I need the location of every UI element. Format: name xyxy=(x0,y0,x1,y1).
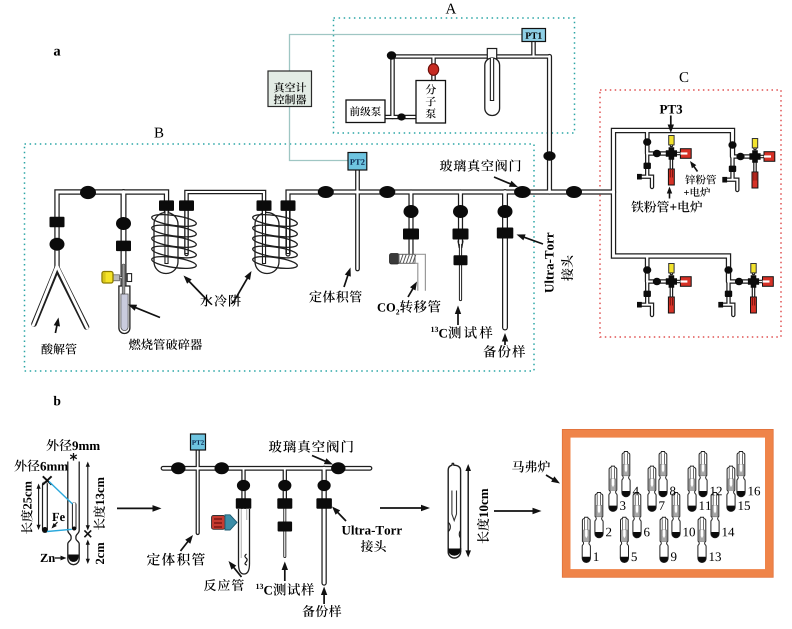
panel label a xyxy=(54,49,61,56)
13C sample branch tube upper xyxy=(458,192,463,243)
fore pump box xyxy=(346,100,385,123)
panel b 13C thin tube xyxy=(283,500,286,557)
cold trap A inner tube xyxy=(490,58,494,101)
A horizontal tube xyxy=(391,54,550,59)
C unit tube to zinc tube xyxy=(675,280,681,284)
label Ultra-Torr connector (rotated) xyxy=(544,233,553,293)
manifold valve dot 4 xyxy=(566,186,582,198)
section label C xyxy=(680,72,689,82)
13C branch lower stopcock xyxy=(454,255,468,265)
glass vacuum valve dot xyxy=(514,186,531,198)
A line valve dot xyxy=(543,151,555,161)
label 13C test sample xyxy=(431,327,434,332)
fore pump line dot xyxy=(397,113,405,120)
ampoule 4 xyxy=(622,452,630,497)
inner tube inside big tube xyxy=(72,504,77,528)
C unit stem stopcock xyxy=(644,163,651,169)
C unit stem valve dot xyxy=(724,266,732,273)
glass tubing black outline pass xyxy=(57,42,765,584)
C unit horizontal tube xyxy=(647,279,671,283)
ampoule 12 xyxy=(699,452,707,497)
crusher side arm xyxy=(112,276,122,279)
trap2 right stopcock xyxy=(281,200,296,211)
b 13C branch dot xyxy=(278,480,291,491)
panel b backup tube xyxy=(321,468,326,583)
ampoule 1 xyxy=(582,517,590,562)
C unit line valve dot xyxy=(736,153,744,160)
trap inner tube xyxy=(164,211,168,264)
length 25cm arrow + label xyxy=(38,487,40,526)
ampoule 13 xyxy=(698,517,706,562)
b reaction branch dot xyxy=(237,480,250,491)
crusher plunger rod xyxy=(122,264,125,294)
water cold trap vessel xyxy=(255,213,279,274)
acid branch valve dot xyxy=(50,238,65,251)
section label A xyxy=(446,4,457,14)
molecular pump box xyxy=(416,81,446,124)
label combustion tube crusher xyxy=(129,339,141,350)
trap2 left stopcock xyxy=(257,200,272,211)
trap right tube xyxy=(286,211,290,254)
combustion tube crusher body xyxy=(119,286,130,333)
tube inner white pass xyxy=(57,42,765,584)
ampoule 5 xyxy=(620,517,628,562)
length 13cm arrow + label xyxy=(87,465,89,527)
C unit J-tube cap xyxy=(722,177,727,183)
b glass vacuum valve dot xyxy=(331,462,345,474)
C unit stem valve dot xyxy=(643,266,651,273)
C unit horizontal tube xyxy=(647,151,671,155)
arrow stage 2 xyxy=(380,507,423,509)
CO2 branch valve dot xyxy=(404,205,419,218)
b 13C lower stopcock xyxy=(278,522,293,532)
C unit horizontal tube xyxy=(733,154,756,158)
Fe label xyxy=(52,513,59,521)
PT1 gauge box xyxy=(522,29,546,42)
C unit tube to sensor xyxy=(752,266,756,274)
ampoule 11 xyxy=(688,466,696,511)
C unit PT3 sensor (yellow) xyxy=(669,136,674,145)
vacuum gauge controller box xyxy=(268,71,312,107)
b backup stopcock (Ultra-Torr) xyxy=(316,498,332,509)
control line PT1 to controller xyxy=(290,35,523,72)
trap coil xyxy=(151,212,197,228)
yellow valve knob xyxy=(102,272,113,284)
C unit zinc powder tube (red) xyxy=(680,277,691,287)
C trunk lower + bottom feed line xyxy=(614,192,729,282)
trap inner tube xyxy=(262,211,266,264)
crusher branch valve dot xyxy=(116,217,131,230)
manifold segment 1 + acid branch + trap1 left tube xyxy=(57,192,167,270)
label CO2 transfer tube xyxy=(378,303,385,311)
combustion crusher branch tube xyxy=(121,192,127,286)
C unit 4-way cross valve xyxy=(749,150,760,163)
sealed tube 10cm xyxy=(448,464,460,553)
b manifold dot 1 xyxy=(171,462,185,474)
A left vertical tube xyxy=(390,57,395,118)
C unit tube to sensor xyxy=(670,138,674,146)
ampoule 7 xyxy=(648,466,656,511)
trap1 right stopcock xyxy=(179,200,194,211)
panel b PT2 gauge box xyxy=(191,434,206,450)
label outer diameter 9mm xyxy=(46,439,58,451)
C unit tube to zinc tube xyxy=(759,155,765,159)
crusher side tab xyxy=(127,274,131,282)
CO2 transfer tube assembly xyxy=(390,254,400,265)
ampoule 15 xyxy=(727,466,735,511)
C unit PT3 sensor (yellow) xyxy=(752,139,757,148)
section box C (red dotted) xyxy=(600,90,781,337)
acid digestion Y-tube xyxy=(34,268,87,327)
C unit lower stem + J sample tube xyxy=(640,282,652,316)
C unit iron powder tube (red) xyxy=(668,297,674,313)
13C branch stopcock xyxy=(453,229,469,240)
trap right tube xyxy=(184,211,188,254)
C unit stem valve dot xyxy=(728,141,736,148)
C unit iron powder tube (red) xyxy=(751,297,757,313)
label muffle furnace xyxy=(512,461,524,473)
b 13C stopcock xyxy=(277,498,292,509)
ampoule 2 xyxy=(595,493,603,538)
molecular pump top tube xyxy=(431,57,436,81)
C unit horizontal tube xyxy=(729,279,754,283)
control line controller to PT2 xyxy=(290,107,349,161)
section box B (teal dotted) xyxy=(25,144,535,371)
label water cold trap xyxy=(200,295,212,307)
label b glass vacuum valve xyxy=(269,440,282,452)
PT1 stem xyxy=(531,42,536,57)
C unit tube to iron tube xyxy=(753,161,757,174)
combustion tube (inner, lavender) xyxy=(121,294,128,331)
seal X mark on small tube xyxy=(43,476,52,484)
ampoule 10 xyxy=(672,493,680,538)
insertion lines (cyan) xyxy=(49,482,73,505)
acid branch stopcock xyxy=(50,217,65,228)
b manifold dot 2 xyxy=(215,462,229,474)
label glass vacuum valve xyxy=(440,160,452,172)
PT2 stem + fixed volume tube xyxy=(355,170,360,269)
small Zn tube (6mm) xyxy=(42,484,48,531)
C unit iron powder tube (red) xyxy=(668,169,674,185)
C unit iron powder tube (red) xyxy=(752,172,758,188)
C unit stem stopcock xyxy=(729,166,736,172)
sealed tube black bottom xyxy=(449,549,461,556)
Zn powder at bottom xyxy=(68,555,78,562)
label reaction tube xyxy=(204,579,216,591)
CO2 transfer branch tube xyxy=(408,192,413,255)
C unit tube to iron tube xyxy=(670,286,674,299)
panel b manifold xyxy=(163,466,370,471)
C unit tube to zinc tube xyxy=(758,280,764,284)
C unit tube to zinc tube xyxy=(675,152,681,156)
backup sample tube xyxy=(502,192,508,328)
b reaction branch stopcock xyxy=(236,498,252,509)
C unit 4-way cross valve xyxy=(748,275,759,288)
13C branch funnel neck xyxy=(458,241,463,249)
C unit 4-way cross valve xyxy=(666,147,677,160)
muffle furnace box (orange) xyxy=(566,434,769,574)
C unit J-tube cap xyxy=(637,174,642,180)
ampoule 9 xyxy=(660,517,668,562)
panel b reaction branch xyxy=(241,468,245,510)
ampoule 6 xyxy=(633,493,641,538)
C unit tube to iron tube xyxy=(670,158,674,171)
label b fixed volume tube xyxy=(147,553,160,566)
length 10cm arrow + label xyxy=(467,469,469,553)
backup branch stopcock (Ultra-Torr) xyxy=(497,228,514,239)
C unit PT3 sensor (yellow) xyxy=(669,264,674,273)
section label B xyxy=(154,128,163,138)
C unit zinc powder tube (red) xyxy=(763,277,774,287)
asterisk seal mark xyxy=(70,453,77,461)
C unit zinc powder tube (red) xyxy=(764,152,775,162)
main tube from A down to manifold xyxy=(547,57,552,193)
cold trap A body xyxy=(485,58,500,116)
C unit stem stopcock xyxy=(644,291,651,297)
sealed tube inner tube xyxy=(452,491,457,521)
trap coil xyxy=(252,212,298,228)
trap1 left stopcock xyxy=(159,200,174,211)
Fe powder in small tube xyxy=(42,527,47,532)
C unit stem xyxy=(645,256,650,282)
label backup sample xyxy=(483,345,496,358)
C unit tube to sensor xyxy=(753,141,757,149)
yellow valve connector xyxy=(113,275,120,281)
red valve on molecular pump xyxy=(428,64,438,76)
ampoule 16 xyxy=(737,452,745,497)
C unit line valve dot xyxy=(653,278,661,285)
13C sample thin tube xyxy=(459,243,462,300)
C unit zinc powder tube (red) xyxy=(680,149,691,159)
C unit stem xyxy=(645,131,650,154)
C unit PT3 sensor (yellow) xyxy=(751,264,756,273)
panel b 13C branch upper xyxy=(283,468,287,502)
C unit lower stem + J sample tube xyxy=(726,157,738,191)
label PT3 xyxy=(660,105,667,114)
C unit stem valve dot xyxy=(643,138,651,145)
2cm arrow + label xyxy=(87,543,89,560)
arrow stage 1 xyxy=(117,507,154,509)
panel label b xyxy=(54,396,61,405)
C unit tube to sensor xyxy=(670,266,674,274)
label b 13C test sample xyxy=(256,584,259,589)
section box A (teal dotted) xyxy=(334,18,575,133)
CO2 branch stopcock xyxy=(403,229,419,240)
manifold valve dot 2 xyxy=(318,186,334,198)
big tube (9mm) outline xyxy=(68,462,79,565)
label iron powder tube + furnace xyxy=(631,201,643,213)
panel b PT2 stem + fixed volume tube xyxy=(196,450,200,533)
cold trap A neck xyxy=(487,49,496,60)
b backup dot xyxy=(318,480,331,491)
ampoule 14 xyxy=(711,493,719,538)
label outer diameter 6mm xyxy=(14,460,26,472)
label fixed volume tube xyxy=(309,291,321,303)
manifold valve dot 3 xyxy=(379,186,395,198)
crusher branch stopcock xyxy=(116,241,131,252)
backup branch valve dot xyxy=(498,205,513,218)
C unit J-tube cap xyxy=(637,302,642,308)
label b backup sample xyxy=(302,605,314,617)
Zn label xyxy=(41,554,48,562)
water cold trap vessel xyxy=(154,213,178,274)
C unit stem stopcock xyxy=(725,291,732,297)
torch (lighter) xyxy=(212,516,226,530)
C unit 4-way cross valve xyxy=(666,275,677,288)
C unit tube to iron tube xyxy=(752,286,756,299)
ampoule 3 xyxy=(609,466,617,511)
trap2 right tube + manifold segment 3 xyxy=(288,192,614,254)
PT2 gauge box xyxy=(348,153,367,171)
arrow stage 3 xyxy=(494,510,534,512)
manifold valve dot xyxy=(80,186,96,199)
fore pump to molecular pump tube xyxy=(385,115,416,120)
label acid digestion tube xyxy=(41,343,52,354)
trap1 right tube + segment 2 + trap2 left tube xyxy=(187,192,265,254)
C unit lower stem + J sample tube xyxy=(640,154,652,188)
reaction tube xyxy=(239,509,250,574)
label b Ultra-Torr xyxy=(342,526,351,535)
C trunk upper + top feed line xyxy=(614,131,733,193)
C unit lower stem + J sample tube xyxy=(722,282,734,316)
label zinc powder tube + furnace xyxy=(685,175,695,185)
A junction dot xyxy=(387,51,396,59)
ampoule 8 xyxy=(659,452,667,497)
C unit line valve dot xyxy=(735,278,743,285)
C unit J-tube cap xyxy=(718,302,723,308)
sample squiggle in reaction tube xyxy=(245,554,247,565)
C unit line valve dot xyxy=(653,150,661,157)
sealed tube neck squiggle xyxy=(448,523,450,532)
13C branch valve dot xyxy=(453,205,468,218)
